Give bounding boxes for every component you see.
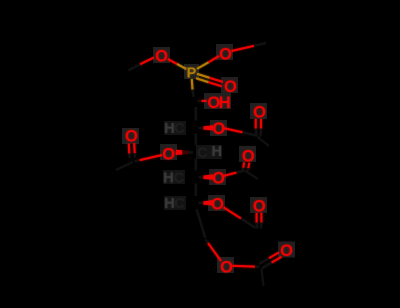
svg-text:P: P: [187, 66, 197, 82]
svg-text:C: C: [174, 196, 185, 212]
double bond C=O11: [257, 213, 262, 229]
wedge C4-O6: [199, 174, 214, 179]
bond C3-C4: [195, 159, 197, 171]
bond C1-OH: [198, 100, 207, 102]
bond P-C1: [192, 79, 194, 97]
svg-text:O: O: [253, 104, 266, 122]
bond O1-P: [168, 59, 187, 69]
double bond C=O8: [256, 119, 261, 137]
acetyl3 methyl: [246, 171, 259, 179]
acetyl5 methyl: [262, 269, 264, 286]
acetyl1 methyl: [258, 137, 270, 146]
bond O6-acetyl C: [224, 171, 245, 176]
wedge C2-O4: [199, 125, 214, 130]
svg-text:H: H: [219, 94, 231, 112]
svg-text:O: O: [155, 48, 168, 66]
bond C1-C2: [195, 107, 197, 121]
bond O1-methyl: [129, 58, 155, 71]
acetyl2 methyl: [116, 162, 133, 170]
svg-text:O: O: [162, 145, 175, 163]
double bond C=O13: [259, 252, 281, 268]
svg-text:H: H: [163, 171, 173, 187]
bond O2-P: [197, 56, 219, 69]
double bond C=O9: [129, 143, 135, 158]
svg-text:O: O: [219, 46, 232, 64]
double bond C=O10: [242, 162, 249, 170]
svg-text:O: O: [280, 242, 293, 260]
svg-text:O: O: [212, 120, 225, 138]
bond O2-methyl: [232, 43, 267, 51]
svg-text:C: C: [174, 121, 185, 137]
svg-text:H: H: [212, 144, 222, 160]
wedge C3-O5: [176, 150, 193, 155]
svg-text:O: O: [220, 258, 233, 276]
bond O4-acetyl C: [225, 128, 257, 135]
svg-text:O: O: [211, 195, 224, 213]
bond C5-C6: [197, 209, 206, 238]
bond O5-acetyl C: [135, 155, 163, 161]
svg-text:O: O: [224, 78, 237, 96]
bond C6-O12: [206, 240, 222, 262]
label glow boxes: [122, 44, 295, 273]
wedge C5-O7: [199, 200, 214, 205]
svg-text:C: C: [174, 171, 185, 187]
bond C4-C5: [195, 184, 197, 197]
bond C2-C3: [195, 134, 197, 146]
svg-text:H: H: [164, 196, 174, 212]
double bond P=O3: [196, 74, 223, 87]
svg-text:O: O: [212, 170, 225, 188]
svg-text:O: O: [125, 128, 138, 146]
bond O7-acetyl C: [224, 207, 256, 228]
svg-text:O: O: [253, 198, 266, 216]
svg-text:H: H: [164, 121, 174, 137]
bond O12-acetyl C: [232, 266, 259, 267]
svg-text:C: C: [197, 146, 208, 162]
svg-text:O: O: [242, 147, 255, 165]
